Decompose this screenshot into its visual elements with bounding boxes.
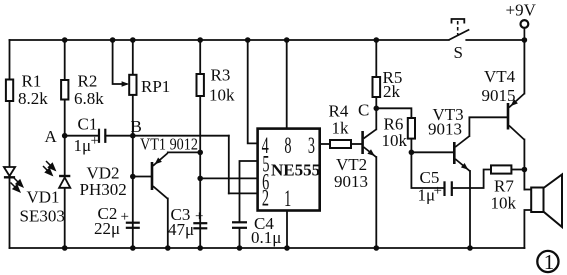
wire R4 to VT2 base bbox=[351, 143, 362, 145]
svg-text:+: + bbox=[91, 133, 99, 149]
svg-text:8.2k: 8.2k bbox=[18, 89, 48, 108]
resistor R7 bbox=[491, 165, 511, 173]
wire RP1 bottom to C2 to ground bbox=[132, 95, 134, 248]
junction dots top rail bbox=[62, 37, 527, 43]
wire top rail right of switch bbox=[466, 39, 524, 41]
wire pin4 from rail bbox=[248, 40, 258, 143]
wire R6 node down to C5 bbox=[411, 152, 443, 188]
svg-text:R2: R2 bbox=[78, 72, 98, 91]
wire speaker top stub bbox=[524, 189, 531, 191]
transistor VT1 9012 bbox=[152, 153, 168, 199]
svg-text:22μ: 22μ bbox=[94, 219, 120, 238]
wire R5 from rail bbox=[375, 40, 377, 77]
VT1 base junction dot bbox=[130, 174, 136, 180]
wire node C to R6 top bbox=[376, 108, 411, 118]
wire pin5 to C4 bbox=[240, 161, 258, 222]
svg-text:47μ: 47μ bbox=[168, 220, 194, 239]
svg-text:C1: C1 bbox=[78, 115, 98, 134]
wire pin3 to R4 bbox=[320, 143, 330, 145]
speaker magnet box bbox=[531, 188, 543, 213]
potentiometer RP1 body bbox=[129, 75, 136, 95]
resistor R5 bbox=[373, 77, 381, 97]
wire VT3 collector riser to VT4 base bbox=[469, 117, 507, 136]
resistor R1 bbox=[6, 80, 13, 102]
svg-text:R1: R1 bbox=[22, 72, 42, 91]
resistor R4 bbox=[330, 140, 351, 148]
wire pin2 horizontal bbox=[229, 192, 258, 194]
wire R3 column bbox=[199, 40, 201, 248]
svg-text:+: + bbox=[434, 183, 442, 199]
VT2 emitter arrow (NPN outward) bbox=[367, 149, 374, 156]
IC U1 NE555 box bbox=[258, 129, 320, 211]
svg-text:+: + bbox=[195, 209, 203, 225]
svg-text:2: 2 bbox=[262, 186, 269, 211]
pin6 junction dot bbox=[197, 176, 203, 182]
svg-text:SE303: SE303 bbox=[20, 207, 65, 226]
svg-text:10k: 10k bbox=[382, 131, 408, 150]
svg-text:3: 3 bbox=[308, 134, 315, 159]
svg-text:A: A bbox=[45, 127, 58, 146]
svg-text:1: 1 bbox=[284, 187, 291, 212]
svg-text:NE555: NE555 bbox=[271, 161, 320, 180]
svg-text:C: C bbox=[358, 101, 369, 120]
speaker cone bbox=[544, 175, 563, 228]
svg-text:10k: 10k bbox=[491, 194, 517, 213]
VT1 emitter arrow (PNP into base) bbox=[155, 158, 162, 165]
node C dot bbox=[374, 106, 380, 112]
wire VT2 emitter to ground bbox=[375, 157, 377, 248]
+9V terminal circle bbox=[521, 20, 529, 28]
capacitor C3 bbox=[193, 223, 207, 228]
svg-text:9013: 9013 bbox=[334, 172, 368, 191]
resistor R2 bbox=[61, 80, 68, 100]
wire VT1 emitter horizontal bbox=[168, 151, 200, 153]
VT1 emitter junction dot bbox=[197, 150, 203, 156]
svg-text:S: S bbox=[454, 43, 463, 62]
node B dot bbox=[130, 133, 136, 139]
wire R6 bottom node bbox=[410, 139, 412, 153]
wire node A to B to pin2 riser bbox=[65, 135, 98, 137]
svg-text:6.8k: 6.8k bbox=[74, 89, 104, 108]
svg-text:VD1: VD1 bbox=[27, 188, 60, 207]
svg-text:10k: 10k bbox=[209, 86, 235, 105]
junction dots bottom rail bbox=[62, 245, 473, 251]
figure number circle 1 bbox=[537, 251, 558, 272]
capacitor C5 bbox=[445, 181, 452, 196]
svg-text:1k: 1k bbox=[332, 119, 350, 138]
svg-text:9015: 9015 bbox=[482, 86, 516, 105]
transistor VT4 9015 bbox=[508, 94, 524, 140]
svg-text:8: 8 bbox=[284, 134, 291, 159]
wire R5 to node C bbox=[375, 97, 377, 108]
node A dot bbox=[62, 133, 68, 139]
wire pin6 to R3 column bbox=[200, 177, 257, 179]
svg-text:RP1: RP1 bbox=[141, 77, 170, 96]
svg-text:+9V: +9V bbox=[506, 1, 537, 20]
resistor R3 bbox=[197, 74, 204, 96]
wire VT1 base bbox=[133, 176, 151, 178]
wire pin2 riser vertical bbox=[228, 136, 230, 194]
switch S blade bbox=[449, 30, 470, 41]
wire left edge column bbox=[9, 40, 11, 248]
svg-text:VT1 9012: VT1 9012 bbox=[140, 135, 198, 154]
wire speaker bottom stub bbox=[524, 210, 531, 248]
R7 right junction dot bbox=[522, 167, 528, 173]
wire RP1 column bbox=[132, 40, 134, 75]
VD1 emitted light arrows bbox=[11, 178, 23, 192]
switch S push actuator cap bbox=[452, 19, 465, 24]
wire bottom rail bbox=[10, 247, 525, 249]
resistor R6 bbox=[408, 118, 415, 139]
wire pin8 from rail bbox=[286, 40, 288, 129]
capacitor C2 bbox=[126, 223, 140, 228]
VD2 incident light arrows bbox=[43, 161, 55, 175]
svg-text:0.1μ: 0.1μ bbox=[251, 228, 281, 247]
svg-text:R3: R3 bbox=[211, 66, 231, 85]
capacitor C1 bbox=[99, 129, 105, 143]
wire RP1 wiper drop bbox=[113, 40, 127, 84]
wire VT4 collector down to speaker bbox=[523, 140, 525, 190]
diode VD2 photodiode PH302 bbox=[59, 176, 70, 188]
wire VT4 emitter riser to +9V bbox=[523, 40, 525, 94]
switch S actuator dashed stem bbox=[457, 21, 459, 35]
VT4 emitter arrow (PNP into base) bbox=[511, 99, 518, 106]
wire terminal stub bbox=[523, 28, 525, 40]
VT3 emitter arrow (NPN outward) bbox=[461, 163, 468, 170]
R6 bottom junction dot bbox=[409, 150, 415, 156]
svg-text:9013: 9013 bbox=[428, 120, 462, 139]
transistor VT2 9013 bbox=[363, 129, 377, 157]
wire VT1 collector to ground bbox=[167, 199, 169, 249]
wire node C to VT2 collector bbox=[375, 108, 377, 129]
wire pin1 to ground bbox=[286, 211, 288, 249]
wire R7 right to VT4 collector line bbox=[511, 169, 524, 171]
svg-text:+: + bbox=[121, 209, 129, 225]
svg-text:1μ: 1μ bbox=[418, 186, 436, 205]
wire C1 right to x228.8 bbox=[105, 135, 229, 137]
wire C4 bottom to ground bbox=[239, 229, 241, 249]
wire top rail left of switch bbox=[10, 39, 449, 41]
diode VD1 LED SE303 bbox=[4, 167, 15, 177]
svg-text:VT4: VT4 bbox=[484, 67, 516, 86]
svg-text:PH302: PH302 bbox=[80, 180, 127, 199]
wire VT3 emitter to ground bbox=[469, 171, 471, 248]
svg-text:1μ: 1μ bbox=[74, 136, 92, 155]
wire C5 right to R7 bbox=[452, 170, 491, 189]
wire R6 node to VT3 base bbox=[411, 151, 453, 153]
wire R2/VD2 column bbox=[64, 40, 66, 248]
svg-text:2k: 2k bbox=[383, 82, 401, 101]
transistor VT3 9013 bbox=[454, 136, 470, 171]
svg-text:B: B bbox=[131, 117, 142, 136]
capacitor C4 bbox=[232, 222, 247, 228]
potentiometer RP1 wiper arrow bbox=[122, 81, 130, 86]
svg-text:1: 1 bbox=[544, 250, 555, 274]
